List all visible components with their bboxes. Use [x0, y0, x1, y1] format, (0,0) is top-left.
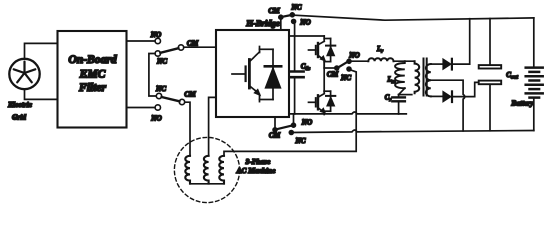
svg-text:NC: NC: [291, 4, 302, 12]
wire S3 NO down through Cdc node: [294, 24, 296, 71]
wire Lr to transformer primary top: [394, 60, 415, 62]
switch S2 lever: [162, 97, 180, 101]
IGBT Q1 inside H-bridge: [232, 47, 260, 102]
svg-text:Electric: Electric: [7, 100, 33, 109]
wire Lm bottom to Cr node: [399, 88, 405, 94]
svg-text:Cr: Cr: [385, 95, 392, 104]
IGBT Q2 (half-bridge top): [309, 36, 326, 68]
transformer T1 core: [424, 59, 427, 96]
switch S2 terminal NO: [150, 105, 161, 123]
diode D3 antiparallel (half-bridge bottom): [324, 91, 335, 111]
svg-text:NC: NC: [295, 137, 306, 145]
svg-text:Filter: Filter: [78, 81, 107, 94]
switch S3 terminal NO: [292, 19, 311, 27]
switch S1 terminal NC: [155, 51, 167, 66]
svg-text:H-Bridge: H-Bridge: [245, 18, 280, 28]
svg-text:Grid: Grid: [12, 113, 26, 122]
wire DC top rail: [289, 35, 324, 37]
switch S3 terminal CM (top): [268, 7, 282, 19]
svg-text:Cout: Cout: [506, 71, 518, 81]
capacitor Cdc: [290, 64, 311, 78]
switch S5 lever: [277, 126, 292, 130]
switch S5 terminal NC: [289, 130, 305, 145]
wire S3 CM down to H-bridge top: [280, 19, 282, 30]
svg-text:3-Phase: 3-Phase: [245, 157, 271, 166]
switch S3 terminal NC: [290, 4, 301, 17]
wire S1 NC to S2 NC: [149, 54, 156, 97]
wire half-bridge midpoint: [324, 62, 334, 92]
switch S5 terminal NO: [291, 119, 312, 128]
wire primary bottom bus: [399, 94, 412, 96]
capacitor Cout: [479, 19, 519, 131]
wire H-bridge left to machine coil 2: [209, 97, 216, 155]
svg-text:CM: CM: [268, 7, 280, 15]
switch S4 terminal NC: [340, 67, 351, 82]
diode D2 antiparallel (half-bridge top): [324, 39, 335, 62]
inductor Lr: [368, 46, 393, 61]
wire D5 cathode to Cout bottom node: [452, 82, 479, 96]
diode D5 (rectifier bottom): [443, 91, 452, 102]
svg-text:NO: NO: [150, 115, 161, 123]
svg-text:NC: NC: [340, 74, 351, 82]
wire grid top to filter: [25, 43, 58, 58]
wire Cdc bottom to DC bottom rail: [294, 78, 296, 114]
wire machine star point: [190, 183, 224, 185]
wire filter bottom output: [127, 107, 155, 109]
transformer T1 secondary winding: [426, 64, 431, 96]
IGBT Q3 (half-bridge bottom): [309, 91, 326, 114]
svg-text:EMC: EMC: [79, 67, 106, 80]
wire secondary center tap down to bottom rail (with hop): [431, 80, 465, 131]
wire filter top output: [127, 40, 155, 42]
wire S1 CM to H-bridge: [184, 46, 216, 48]
label Electric Grid: [7, 100, 33, 122]
switch S5 terminal CM: [269, 128, 281, 140]
svg-text:NO: NO: [299, 19, 310, 27]
H-bridge box: [216, 18, 289, 117]
svg-text:NC: NC: [156, 58, 167, 66]
bottom battery rail wire (with hop): [291, 130, 534, 132]
diode D4 (rectifier top): [443, 59, 452, 70]
wire D4 cathode to top rail: [452, 19, 470, 64]
wire H-bridge bottom to switch S5 CM: [274, 117, 276, 127]
svg-text:NO: NO: [150, 31, 161, 39]
switch S4 lever: [339, 62, 347, 67]
switch S1 terminal NO: [150, 31, 161, 44]
svg-text:NO: NO: [301, 119, 312, 127]
label 3-Phase AC Machine: [236, 157, 277, 175]
battery B1: [510, 18, 542, 131]
AC source (electric grid) circle: [9, 59, 39, 89]
wire S2 CM to machine coil 1: [185, 102, 190, 156]
svg-text:NO: NO: [348, 52, 359, 60]
svg-text:NC: NC: [155, 85, 166, 93]
switch S3 lever: [283, 15, 291, 17]
wire S5 NO up to DC bottom rail: [293, 114, 295, 123]
machine winding 2: [204, 156, 209, 184]
wire secondary bottom to D5: [431, 95, 443, 97]
svg-text:CM: CM: [187, 40, 199, 48]
svg-text:AC Machine: AC Machine: [236, 166, 277, 175]
svg-text:Lm: Lm: [386, 77, 395, 86]
svg-text:On-Board: On-Board: [68, 53, 117, 66]
switch S2 terminal CM: [179, 91, 196, 105]
wire secondary top to D4: [431, 63, 443, 65]
DC bottom rail wire (with hop): [289, 112, 406, 114]
switch S2 terminal NC: [155, 85, 166, 99]
svg-text:Lr: Lr: [376, 46, 383, 55]
switch S1 terminal CM: [178, 40, 198, 51]
capacitor Cr: [385, 95, 405, 115]
svg-text:CM: CM: [327, 71, 339, 79]
inductor Lm: [386, 61, 404, 88]
switch S4 terminal NO: [347, 52, 360, 64]
svg-text:CM: CM: [269, 132, 281, 140]
svg-text:CM: CM: [184, 91, 196, 99]
top battery rail wire (from S3 NC): [294, 15, 533, 20]
wire S4 NC to machine coil 3: [224, 70, 356, 156]
machine winding 3: [219, 156, 224, 184]
switch S4 terminal CM (midpoint): [327, 66, 339, 79]
transformer T1 primary winding: [415, 61, 420, 93]
3-phase AC machine dashed circle: [174, 137, 239, 202]
machine winding 1: [185, 156, 190, 184]
wire S4 NO to Lr: [351, 60, 368, 62]
svg-text:Battery: Battery: [510, 99, 534, 108]
EMC filter box U1: [58, 31, 127, 128]
diode D1 antiparallel in H-bridge: [260, 49, 282, 99]
wire grid bottom to filter: [25, 89, 58, 99]
switch S1 lever: [160, 48, 178, 53]
